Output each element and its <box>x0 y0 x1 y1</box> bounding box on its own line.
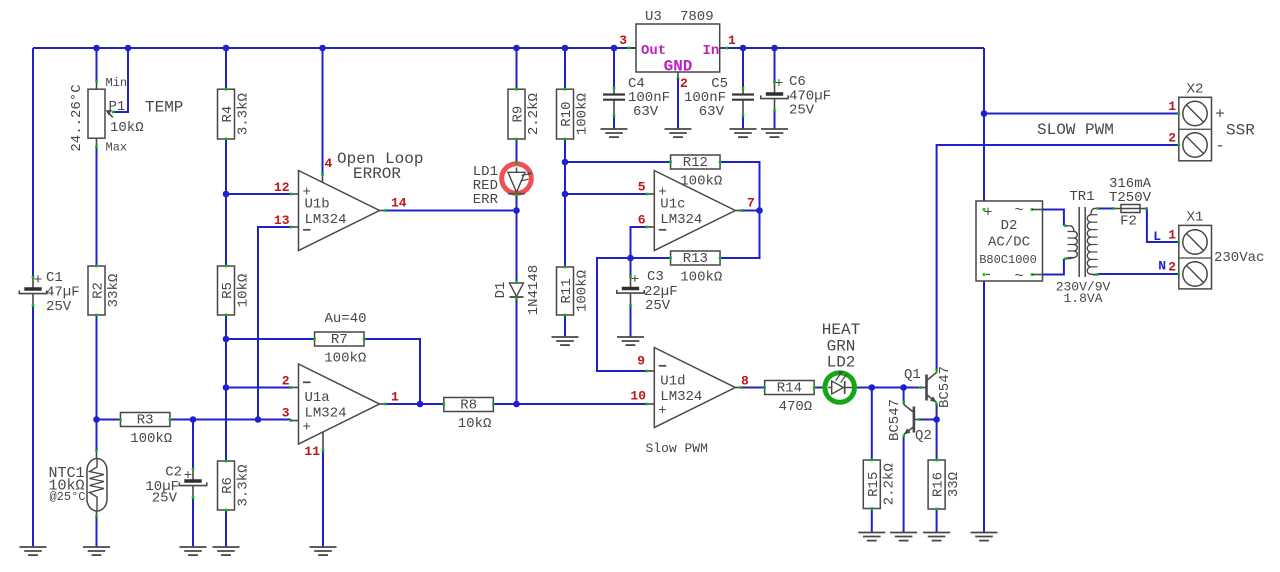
svg-text:BC547: BC547 <box>887 399 903 441</box>
svg-text:R2: R2 <box>91 282 107 299</box>
svg-text:6: 6 <box>638 213 646 228</box>
svg-text:25V: 25V <box>789 103 815 119</box>
svg-text:5: 5 <box>638 180 646 195</box>
svg-text:R10: R10 <box>559 101 575 126</box>
svg-text:U1c: U1c <box>660 196 685 212</box>
svg-text:N: N <box>1158 259 1166 274</box>
svg-text:Slow PWM: Slow PWM <box>646 441 708 456</box>
svg-text:2: 2 <box>680 76 688 91</box>
svg-text:Au=40: Au=40 <box>325 311 367 327</box>
svg-text:10kΩ: 10kΩ <box>458 416 492 432</box>
svg-text:R6: R6 <box>220 477 236 494</box>
svg-text:U1d: U1d <box>660 373 685 389</box>
svg-text:1: 1 <box>1168 99 1176 114</box>
svg-text:ERR: ERR <box>473 192 499 208</box>
svg-text:25V: 25V <box>152 491 178 507</box>
svg-text:X2: X2 <box>1187 82 1204 98</box>
svg-text:2: 2 <box>1168 260 1176 275</box>
svg-text:13: 13 <box>274 213 290 228</box>
svg-text:B80C1000: B80C1000 <box>979 253 1037 267</box>
svg-text:+: + <box>1215 106 1225 124</box>
svg-text:R5: R5 <box>220 282 236 299</box>
svg-text:10kΩ: 10kΩ <box>110 120 144 136</box>
svg-text:LD2: LD2 <box>827 354 856 372</box>
svg-text:LM324: LM324 <box>305 405 347 421</box>
svg-text:R12: R12 <box>683 155 708 171</box>
svg-text:10: 10 <box>630 389 646 404</box>
svg-text:ERROR: ERROR <box>353 165 401 183</box>
svg-text:R13: R13 <box>683 251 708 267</box>
svg-text:R3: R3 <box>137 413 154 429</box>
svg-text:D2: D2 <box>1001 218 1018 234</box>
svg-text:14: 14 <box>391 196 407 211</box>
svg-text:2.2kΩ: 2.2kΩ <box>526 93 542 135</box>
svg-text:1N4148: 1N4148 <box>526 265 542 315</box>
svg-text:24..26°C: 24..26°C <box>69 84 85 151</box>
svg-text:F2: F2 <box>1120 214 1137 230</box>
svg-text:100kΩ: 100kΩ <box>324 351 366 367</box>
svg-text:25V: 25V <box>645 298 671 314</box>
svg-text:R9: R9 <box>511 106 527 123</box>
svg-text:LM324: LM324 <box>660 212 702 228</box>
svg-text:+: + <box>658 403 666 419</box>
svg-text:230Vac: 230Vac <box>1214 250 1264 266</box>
svg-text:L: L <box>1153 229 1161 244</box>
svg-text:BC547: BC547 <box>937 366 953 408</box>
svg-text:1: 1 <box>1168 228 1176 243</box>
svg-text:GND: GND <box>664 58 693 76</box>
svg-text:P1: P1 <box>109 99 126 115</box>
svg-text:25V: 25V <box>46 299 72 315</box>
svg-text:~: ~ <box>1014 268 1023 285</box>
svg-text:TR1: TR1 <box>1069 189 1094 205</box>
svg-text:+: + <box>983 205 992 222</box>
svg-text:-: - <box>1215 137 1225 155</box>
svg-text:+: + <box>303 420 311 436</box>
svg-text:U1b: U1b <box>305 196 330 212</box>
svg-text:+: + <box>184 468 192 484</box>
svg-text:3.3kΩ: 3.3kΩ <box>236 464 252 506</box>
svg-text:3: 3 <box>282 406 290 421</box>
svg-text:HEAT: HEAT <box>822 321 860 339</box>
svg-text:U3: U3 <box>645 9 662 25</box>
svg-text:470Ω: 470Ω <box>779 399 813 415</box>
svg-text:100kΩ: 100kΩ <box>575 270 591 312</box>
svg-text:R7: R7 <box>331 332 348 348</box>
svg-text:+: + <box>631 272 639 288</box>
svg-text:1: 1 <box>391 390 399 405</box>
svg-text:C3: C3 <box>647 269 664 285</box>
svg-text:D1: D1 <box>493 282 509 299</box>
svg-text:2: 2 <box>282 374 290 389</box>
svg-text:R11: R11 <box>559 278 575 303</box>
svg-text:@25°C: @25°C <box>49 490 85 504</box>
svg-text:In: In <box>703 43 720 59</box>
svg-text:Q2: Q2 <box>915 428 932 444</box>
svg-text:100kΩ: 100kΩ <box>680 270 722 286</box>
svg-text:~: ~ <box>1014 202 1023 219</box>
svg-text:R16: R16 <box>931 472 947 497</box>
svg-text:+: + <box>775 76 783 92</box>
svg-text:Min: Min <box>106 76 128 90</box>
svg-text:2: 2 <box>1168 131 1176 146</box>
svg-text:T250V: T250V <box>1109 190 1152 206</box>
svg-text:U1a: U1a <box>305 390 330 406</box>
svg-text:9: 9 <box>637 354 645 369</box>
svg-text:63V: 63V <box>699 104 725 120</box>
svg-text:63V: 63V <box>633 104 659 120</box>
svg-text:R8: R8 <box>460 398 477 414</box>
svg-text:3: 3 <box>619 33 627 48</box>
svg-text:SSR: SSR <box>1226 122 1255 140</box>
svg-text:33kΩ: 33kΩ <box>106 274 122 308</box>
svg-text:X1: X1 <box>1187 210 1204 226</box>
svg-text:4: 4 <box>325 156 333 171</box>
svg-text:R14: R14 <box>777 381 802 397</box>
svg-text:+: + <box>33 272 42 289</box>
svg-text:AC/DC: AC/DC <box>988 235 1030 251</box>
svg-text:Out: Out <box>641 43 666 59</box>
svg-text:2.2kΩ: 2.2kΩ <box>881 463 897 505</box>
svg-text:TEMP: TEMP <box>145 99 183 117</box>
svg-text:1: 1 <box>728 33 736 48</box>
svg-text:R15: R15 <box>866 472 882 497</box>
svg-text:R4: R4 <box>220 106 236 123</box>
svg-text:3.3kΩ: 3.3kΩ <box>236 93 252 135</box>
svg-text:10kΩ: 10kΩ <box>236 274 252 308</box>
svg-text:100kΩ: 100kΩ <box>130 431 172 447</box>
svg-text:LM324: LM324 <box>660 389 702 405</box>
svg-text:12: 12 <box>274 180 290 195</box>
svg-text:Q1: Q1 <box>904 367 921 383</box>
svg-text:100kΩ: 100kΩ <box>575 93 591 135</box>
svg-text:LM324: LM324 <box>305 212 347 228</box>
svg-text:SLOW PWM: SLOW PWM <box>1037 121 1114 139</box>
svg-text:1.8VA: 1.8VA <box>1063 291 1102 306</box>
svg-text:7: 7 <box>747 196 755 211</box>
svg-text:Max: Max <box>106 141 128 155</box>
svg-text:33Ω: 33Ω <box>946 472 962 497</box>
svg-text:11: 11 <box>304 444 320 459</box>
svg-text:8: 8 <box>741 374 749 389</box>
svg-text:7809: 7809 <box>680 9 714 25</box>
